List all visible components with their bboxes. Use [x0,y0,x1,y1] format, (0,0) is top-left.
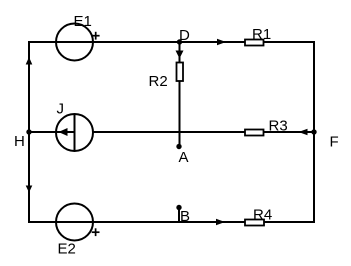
arrow left on middle wire [299,129,308,136]
wire node B stub [178,208,180,223]
resistor R4 [245,220,264,226]
svg-text:R4: R4 [253,207,272,224]
wire top (node D rail) [29,41,314,43]
node B [176,205,181,210]
arrow right on bottom wire [216,219,225,226]
wire middle right (J to F) [93,131,314,133]
resistor R3 [245,130,264,136]
arrow right on top wire [217,39,226,46]
svg-text:R2: R2 [149,73,168,90]
svg-text:R1: R1 [252,26,271,43]
E2 polarity + [92,231,100,233]
node D [177,39,182,44]
node A [176,144,181,149]
wire R2 branch (D to A) [179,42,181,147]
svg-text:J: J [57,101,65,118]
arrow down on R2 branch [176,51,184,59]
voltage source E2 [56,204,93,241]
wire right (F rail) [313,41,315,223]
voltage source E1 [56,24,93,61]
svg-text:A: A [179,149,189,166]
wire bottom (node B rail) [29,221,314,223]
current source J [56,114,93,151]
arrow up on left wire [26,57,33,65]
wire left (H rail) [28,41,30,223]
node H [26,129,31,134]
svg-text:H: H [14,133,25,150]
arrow down on left wire [26,186,33,193]
svg-text:B: B [180,208,190,225]
svg-text:E2: E2 [58,241,76,258]
svg-text:D: D [179,27,190,44]
E1 polarity + [92,35,100,37]
node F [311,129,316,134]
wire middle left (H to J) [29,131,56,133]
svg-text:R3: R3 [269,118,288,135]
svg-text:E1: E1 [74,13,92,30]
resistor R2 [177,63,184,82]
resistor R1 [245,40,264,46]
svg-text:F: F [330,134,339,151]
